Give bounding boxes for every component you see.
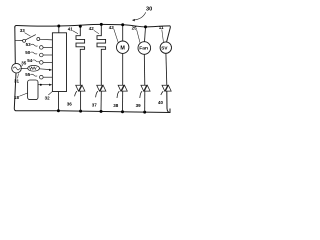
wire: right border top corner down to SV: [167, 26, 171, 42]
sensor box 18: [28, 80, 38, 100]
wire triac39 to bottom: [144, 91, 146, 112]
label 35: [20, 60, 26, 67]
triac 37: [96, 85, 106, 97]
switch contact 53: [31, 44, 53, 49]
junction node heater41 bottom: [79, 110, 82, 113]
label 32: [45, 92, 53, 101]
junction node Fan bottom: [143, 111, 146, 114]
switch 33: [15, 35, 52, 43]
junction node M top: [121, 23, 124, 26]
svg-text:40: 40: [158, 100, 164, 105]
svg-text:Fan: Fan: [139, 46, 148, 52]
label 30 with arrow: [132, 7, 152, 22]
svg-text:32: 32: [45, 95, 51, 100]
wire triac36 to bottom: [80, 91, 82, 111]
controller box 32: [52, 33, 66, 92]
thermal fuse 35 (oval with W): [21, 65, 53, 71]
motor M 43: [117, 25, 129, 85]
svg-text:30: 30: [146, 7, 152, 13]
junction node Fan top: [144, 25, 147, 28]
wire triac37 to bottom: [100, 91, 102, 111]
svg-text:31: 31: [14, 79, 20, 84]
fan motor 25: [138, 27, 151, 85]
junction node heater41 top: [79, 25, 82, 28]
terminal arrow row7 into box 32: [38, 84, 52, 86]
svg-text:25: 25: [132, 25, 138, 30]
switch contact 55: [30, 74, 52, 79]
label 42: [89, 26, 99, 34]
junction node heater42 top: [100, 23, 103, 26]
label 25: [132, 25, 141, 43]
wire: box 32 to bottom line: [57, 92, 59, 111]
svg-text:39: 39: [136, 103, 142, 108]
triac 40: [161, 85, 171, 95]
label 31: [14, 74, 20, 84]
svg-text:53: 53: [26, 42, 32, 47]
heater 42: [97, 24, 106, 85]
triac 38: [117, 85, 127, 98]
svg-text:38: 38: [113, 103, 119, 108]
label 11: [159, 25, 164, 42]
junction node bottom box32: [57, 109, 60, 112]
svg-text:42: 42: [89, 26, 95, 31]
svg-text:36: 36: [67, 102, 73, 107]
switch contact 50: [30, 52, 52, 57]
triac 39: [140, 85, 150, 98]
junction node heater42 bottom: [100, 110, 103, 113]
outer wire: top supply line: [15, 24, 170, 27]
triac 36: [75, 85, 85, 96]
svg-text:33: 33: [20, 28, 26, 33]
wire: left border upper (corner to AC source): [14, 27, 17, 64]
svg-text:43: 43: [109, 25, 115, 30]
svg-text:50: 50: [25, 50, 31, 55]
label 43: [109, 25, 119, 43]
junction node M bottom: [121, 110, 124, 113]
wire: left border lower (AC source to bottom corner): [14, 73, 16, 111]
heater 41: [76, 26, 85, 85]
wire: right border lower (triac 40 to bottom corner): [167, 91, 170, 112]
wire: box 32 to top line: [58, 26, 60, 33]
svg-text:41: 41: [68, 27, 74, 32]
AC power source 31: [12, 63, 22, 73]
junction node top box32: [57, 25, 60, 28]
switch contact 54: [32, 60, 52, 64]
svg-text:37: 37: [92, 102, 98, 107]
svg-text:35: 35: [21, 60, 27, 65]
wire triac38 to bottom: [122, 91, 124, 112]
svg-text:55: 55: [25, 72, 31, 77]
solenoid valve SV 11: [160, 42, 171, 85]
svg-text:M: M: [120, 45, 125, 51]
svg-text:SV: SV: [161, 45, 168, 50]
label 33: [20, 28, 31, 36]
svg-text:18: 18: [14, 95, 20, 100]
wire: bottom return line: [16, 109, 171, 113]
label 18: [14, 93, 28, 100]
svg-text:11: 11: [159, 25, 164, 30]
svg-text:54: 54: [27, 58, 33, 63]
label 41: [68, 27, 78, 34]
